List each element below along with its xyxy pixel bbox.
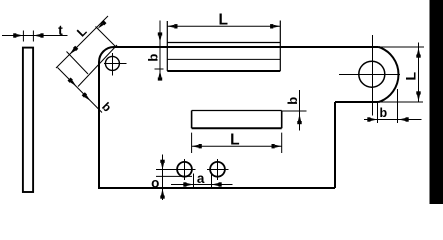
top slot top edge [167,42,280,44]
top slot b arrow up [159,70,162,77]
top slot mid line [167,58,280,60]
corner b dim line [58,68,103,113]
lower slot bottom edge [192,127,282,129]
lug L arrow down [417,95,420,102]
lug L arrow up [417,48,420,55]
lower slot top edge [192,110,282,112]
bottom hole 2 crosshairs [207,159,229,180]
lower slot side edges [192,111,282,129]
dimension t line [2,35,68,37]
outline corner fillet [99,47,114,62]
a arrow left [187,183,194,186]
svg-text:b: b [285,97,300,105]
black strip right [430,0,443,204]
o ext line 1 [156,169,178,171]
corner L dim arrow SW [70,49,76,55]
top slot L arrow left [167,25,174,28]
lower slot L arrow right [275,145,282,148]
top slot left edge [166,21,168,71]
lower slot L arrow left [192,145,199,148]
top slot L dim line [167,25,280,27]
dimension t arrow left [16,34,23,37]
bottom hole 1 crosshairs [174,159,196,180]
side view plate [23,48,33,192]
corner hole [105,56,119,70]
lug b ext line 1 [377,102,379,123]
top slot b dim line [159,21,161,80]
top slot bottom edge [167,70,280,72]
corner side tick SW [67,52,89,75]
outline lug bottom [335,101,379,103]
corner b dim arrow 1 [70,80,76,86]
o arrow up [161,189,164,196]
svg-text:o: o [151,176,159,191]
a ext lines [194,174,212,189]
lug b ext line 2 [397,89,399,123]
corner hole crosshairs [104,53,127,76]
dimension t arrow right [33,34,40,37]
lower slot L dim line [192,145,282,147]
o ext line 2 [156,175,192,177]
lug hole [359,61,385,87]
lug L dim line [418,43,420,103]
top slot b arrow down [159,36,162,43]
svg-text:b: b [146,54,161,62]
lug b arrow left [371,118,378,121]
o dim line [162,155,164,201]
top slot L arrow right [273,25,280,28]
a arrow right [212,183,219,186]
lug b dim line [364,119,422,121]
lug centerline horizontal [339,74,400,76]
svg-text:a: a [197,171,205,186]
outline left edge [98,62,100,188]
top slot right edge [279,21,281,72]
corner L dim line [56,16,108,68]
a dim line [171,184,233,186]
bottom hole 2 [210,162,225,177]
lower slot b dim line [299,90,301,131]
lower slot b ext line [282,110,307,112]
svg-text:L: L [230,131,239,148]
corner side tick NE [96,27,117,48]
top slot b ext left [155,68,164,70]
svg-text:b: b [379,106,387,120]
corner L dim arrow NE [98,23,104,29]
svg-text:L: L [403,72,419,81]
corner bend line [78,45,117,87]
outline top edge [114,46,379,48]
dimension t extension ticks [23,31,33,42]
lug L ext top [378,46,424,48]
lug b arrow right [399,118,406,121]
lug centerline vertical [372,35,374,116]
svg-text:t: t [58,22,63,38]
outline bottom edge [98,187,335,189]
svg-text:L: L [218,11,227,28]
o arrow down [161,163,164,170]
lug arc [379,47,399,102]
lug L ext bottom [377,101,423,103]
lower slot b arrow [298,114,301,121]
lower slot L ext ticks [192,133,282,153]
corner b dim arrow 2 [85,95,91,101]
bottom hole 1 [177,162,192,177]
outline right step [334,102,336,188]
